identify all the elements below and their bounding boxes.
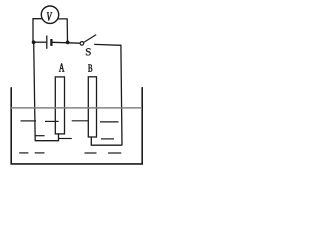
tank beaker walls <box>11 87 142 164</box>
label B <box>88 64 92 71</box>
liquid surface line <box>11 107 142 109</box>
wire bottom connector to plate A <box>35 134 59 141</box>
liquid dash row3 d2 <box>35 152 45 154</box>
liquid dash row1 d3 <box>72 120 89 122</box>
liquid dash row3 d1 <box>19 152 28 154</box>
voltmeter U1 circle <box>41 6 58 23</box>
wire switch to right corner <box>94 43 121 46</box>
wire right vertical down to B connector <box>121 45 122 146</box>
switch S lever <box>84 35 97 43</box>
wire voltmeter left stub <box>33 19 43 43</box>
liquid dash row1 d1 <box>21 120 37 122</box>
node junction dot left <box>32 40 36 44</box>
battery BT1 short plate <box>50 39 52 46</box>
switch S pivot circle <box>80 42 84 46</box>
liquid dash row1 d4 <box>100 121 119 123</box>
electrode plate A <box>55 77 64 134</box>
battery BT1 long plate <box>46 36 48 49</box>
wire bottom connector to plate B <box>91 137 122 145</box>
wire left vertical down to A connector <box>33 42 35 141</box>
liquid dash row2 d1 <box>35 135 45 137</box>
liquid dash row3 d4 <box>108 152 121 154</box>
liquid dash row2 d2 <box>59 138 72 140</box>
electrode plate B <box>88 77 96 137</box>
node junction dot right <box>66 41 70 45</box>
wire battery line left <box>33 41 46 43</box>
liquid dash row3 d3 <box>85 152 97 154</box>
liquid dash row2 d3 <box>101 138 114 140</box>
wire battery to switch <box>53 41 81 44</box>
voltmeter label V <box>47 12 52 20</box>
liquid dash row1 d2 <box>45 120 59 122</box>
wire voltmeter right stub <box>58 19 68 42</box>
switch label S <box>86 48 91 55</box>
label A <box>59 63 64 71</box>
